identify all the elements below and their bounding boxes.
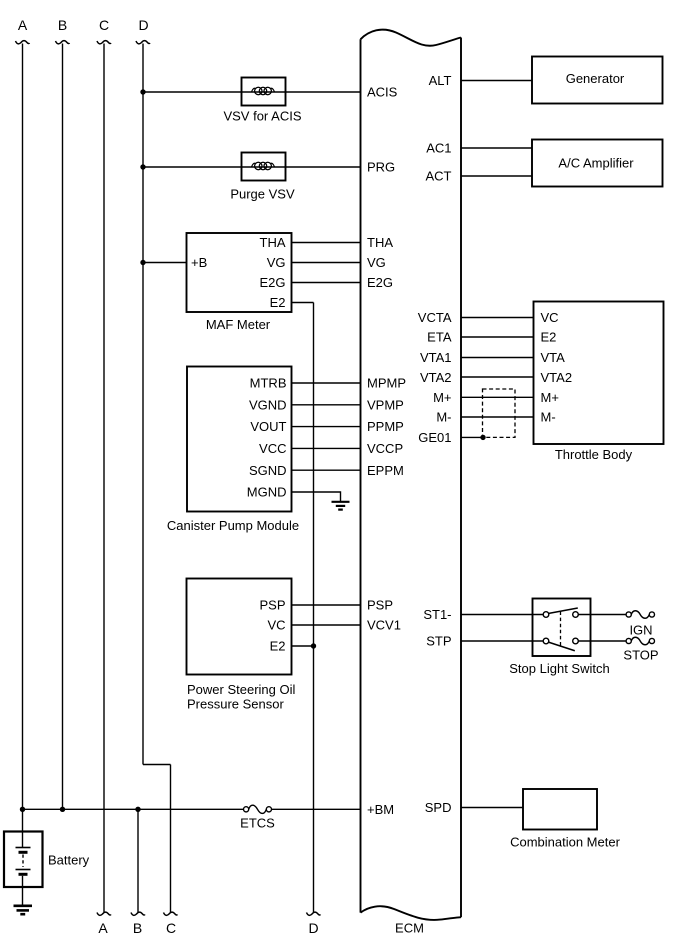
wire switch to IGN connector: [591, 614, 627, 616]
svg-text:+B: +B: [191, 255, 207, 270]
connector A bottom symbol: [97, 912, 111, 915]
battery cell 1 long plate: [16, 847, 31, 849]
svg-text:B: B: [58, 17, 67, 33]
wire MAF E2G to ECM: [292, 282, 361, 284]
wire STP to Stop Light Switch: [461, 640, 533, 642]
junction dot D/+B: [140, 260, 145, 265]
wire MAF E2 to ground bus: [292, 302, 314, 304]
svg-text:VSV for ACIS: VSV for ACIS: [223, 109, 301, 124]
switch upper left contact: [543, 612, 549, 618]
switch dashed link: [560, 612, 562, 647]
IGN connector right circle: [649, 612, 654, 617]
fuse ETCS right terminal: [266, 807, 271, 812]
svg-text:VCCP: VCCP: [367, 441, 403, 456]
svg-text:ACT: ACT: [426, 169, 452, 184]
svg-text:SPD: SPD: [425, 800, 452, 815]
wire D vertical upper segment: [142, 44, 144, 765]
wire switch to STOP connector: [591, 640, 627, 642]
svg-text:E2G: E2G: [367, 275, 393, 290]
switch lower pole wires: [533, 640, 591, 642]
junction dot +BM at bottom-B stub: [135, 807, 140, 812]
junction dot D/PRG: [140, 164, 145, 169]
battery cell 2 long plate: [16, 869, 31, 871]
svg-text:VGND: VGND: [249, 397, 287, 412]
battery cell 1 short plate: [19, 851, 28, 854]
svg-text:E2: E2: [270, 295, 286, 310]
IGN connector wave: [631, 611, 649, 619]
ground symbol for MGND: [332, 502, 350, 510]
svg-text:PSP: PSP: [367, 598, 393, 613]
svg-text:PPMP: PPMP: [367, 419, 404, 434]
Canister Pump Module box: [187, 367, 292, 512]
wire M+ to Throttle Body: [461, 396, 534, 398]
svg-text:ST1-: ST1-: [423, 607, 451, 622]
wire D jog horizontal: [143, 764, 171, 766]
svg-text:Generator: Generator: [566, 71, 625, 86]
VSV for ACIS coil: [252, 87, 275, 94]
svg-text:D: D: [138, 17, 148, 33]
connector C top symbol: [97, 41, 111, 44]
svg-text:PSP: PSP: [259, 598, 285, 613]
wire MAF +B from D line: [143, 262, 187, 264]
wire ST1- to Stop Light Switch: [461, 614, 533, 616]
connector D bottom symbol: [307, 912, 321, 915]
connector C bottom symbol: [164, 912, 178, 915]
svg-text:M+: M+: [433, 390, 451, 405]
junction dot PS E2 on ground bus: [311, 643, 316, 648]
Generator box: [532, 57, 663, 104]
wire VOUT to ECM PPMP: [292, 426, 361, 428]
wire ALT to Generator: [461, 80, 532, 82]
wire MGND to ground: [292, 492, 341, 501]
svg-text:A: A: [18, 17, 28, 33]
svg-text:VG: VG: [367, 255, 386, 270]
svg-text:MAF Meter: MAF Meter: [206, 317, 271, 332]
battery bottom lead to ground: [22, 876, 24, 905]
wire +BM main horizontal left part: [23, 808, 244, 810]
svg-text:M-: M-: [541, 410, 556, 425]
junction dot D/ACIS: [140, 89, 145, 94]
connector B top symbol: [56, 41, 70, 44]
svg-text:A/C Amplifier: A/C Amplifier: [558, 156, 634, 171]
switch upper blade: [549, 608, 578, 613]
wire A vertical (battery feed): [22, 44, 24, 832]
STOP connector wave: [631, 637, 649, 645]
connector A top symbol: [16, 41, 30, 44]
wire +BM main horizontal right part: [271, 808, 360, 810]
svg-text:Throttle Body: Throttle Body: [555, 447, 633, 462]
wire GE01 to shield: [461, 436, 483, 438]
switch lower left contact: [543, 638, 549, 644]
wire D lower segment to bottom connector C: [170, 765, 172, 913]
Power Steering Oil Pressure Sensor box: [187, 579, 292, 675]
junction dot GE01 shield: [480, 435, 485, 440]
svg-text:C: C: [99, 17, 109, 33]
A/C Amplifier box: [532, 140, 663, 187]
svg-text:VCC: VCC: [259, 441, 286, 456]
wire PS E2 to ground bus: [292, 645, 314, 647]
svg-text:THA: THA: [260, 235, 286, 250]
wire VGND to ECM VPMP: [292, 404, 361, 406]
Stop Light Switch box: [533, 599, 591, 657]
wire ETA to Throttle Body E2: [461, 336, 534, 338]
svg-text:IGN: IGN: [629, 623, 652, 638]
svg-text:VOUT: VOUT: [250, 419, 286, 434]
LEFTDONE: [361, 30, 462, 920]
ECM body right edge: [460, 38, 462, 918]
svg-text:Purge VSV: Purge VSV: [230, 187, 295, 202]
ECM body top torn edge: [361, 30, 462, 46]
svg-text:ETA: ETA: [427, 330, 452, 345]
junction dot +BM at A line: [20, 807, 25, 812]
svg-text:VPMP: VPMP: [367, 397, 404, 412]
svg-text:STP: STP: [426, 634, 451, 649]
connector D top symbol: [136, 41, 150, 44]
svg-text:SGND: SGND: [249, 463, 287, 478]
connector B bottom symbol: [131, 912, 145, 915]
ECM body bottom torn edge: [361, 906, 462, 920]
svg-text:GE01: GE01: [418, 430, 451, 445]
fuse ETCS left terminal: [244, 807, 249, 812]
svg-text:VTA: VTA: [541, 350, 566, 365]
battery box: [4, 832, 43, 888]
wire SPD to Combination Meter: [461, 807, 523, 809]
Purge VSV box: [242, 153, 286, 181]
wire MTRB to ECM MPMP: [292, 382, 361, 384]
wire M- to Throttle Body: [461, 416, 534, 418]
svg-text:VTA2: VTA2: [420, 370, 452, 385]
svg-text:ALT: ALT: [429, 73, 452, 88]
svg-text:Canister Pump Module: Canister Pump Module: [167, 518, 299, 533]
wire PRG row (D line to ECM): [143, 166, 361, 168]
svg-text:STOP: STOP: [623, 648, 658, 663]
wire VTA2 to Throttle Body VTA2: [461, 376, 534, 378]
svg-text:B: B: [133, 920, 142, 936]
wire ACIS row (D line to ECM): [143, 91, 361, 93]
Combination Meter box: [523, 789, 597, 830]
svg-text:Stop Light Switch: Stop Light Switch: [509, 661, 609, 676]
wire AC1 to A/C Amplifier: [461, 147, 532, 149]
svg-text:VG: VG: [267, 255, 286, 270]
wire PSP to ECM: [292, 604, 361, 606]
svg-text:VCV1: VCV1: [367, 618, 401, 633]
wire VTA1 to Throttle Body VTA: [461, 357, 534, 359]
svg-text:ECM: ECM: [395, 921, 424, 936]
battery top lead: [22, 832, 24, 848]
wire ACT to A/C Amplifier: [461, 175, 532, 177]
switch lower right contact: [573, 638, 579, 644]
svg-text:M-: M-: [436, 410, 451, 425]
wire VCTA to Throttle Body VC: [461, 317, 534, 319]
wire E2 ground bus vertical to bottom connector D: [313, 303, 315, 913]
ECM body left edge: [360, 39, 362, 912]
svg-text:M+: M+: [541, 390, 559, 405]
svg-text:ETCS: ETCS: [240, 816, 275, 831]
STOP connector left circle: [626, 638, 631, 643]
ground symbol below battery: [14, 906, 33, 914]
Throttle Body box: [534, 302, 664, 445]
svg-text:C: C: [166, 920, 176, 936]
switch upper pole wires: [533, 614, 591, 616]
svg-text:MTRB: MTRB: [250, 376, 287, 391]
IGN connector left circle: [626, 612, 631, 617]
wire bottom B stub: [137, 809, 139, 912]
wire MAF VG to ECM: [292, 262, 361, 264]
svg-text:MPMP: MPMP: [367, 376, 406, 391]
battery dashed middle link: [22, 855, 24, 868]
svg-text:E2: E2: [541, 330, 557, 345]
svg-text:D: D: [308, 920, 318, 936]
svg-text:A: A: [98, 920, 108, 936]
svg-text:Pressure Sensor: Pressure Sensor: [187, 697, 284, 712]
VSV for ACIS box: [242, 78, 286, 106]
switch lower blade: [549, 642, 575, 650]
svg-text:+BM: +BM: [367, 802, 394, 817]
switch upper right contact: [573, 612, 579, 618]
svg-text:MGND: MGND: [247, 485, 287, 500]
battery cell 2 short plate: [19, 873, 28, 876]
STOP connector right circle: [649, 638, 654, 643]
wire VC to ECM VCV1: [292, 624, 361, 626]
svg-text:E2: E2: [270, 639, 286, 654]
junction dot +BM at B line: [60, 807, 65, 812]
shield dashed box: [483, 389, 516, 437]
wire C vertical to bottom connector A: [103, 44, 105, 913]
wire VCC to ECM VCCP: [292, 447, 361, 449]
wire SGND to ECM EPPM: [292, 469, 361, 471]
svg-text:THA: THA: [367, 235, 393, 250]
MAF Meter box: [187, 233, 292, 312]
svg-text:Power Steering Oil: Power Steering Oil: [187, 682, 295, 697]
wire B vertical: [62, 44, 64, 810]
svg-text:VTA2: VTA2: [541, 370, 573, 385]
svg-text:Battery: Battery: [48, 853, 90, 868]
Purge VSV coil: [252, 162, 275, 169]
svg-text:VC: VC: [541, 310, 559, 325]
svg-text:VC: VC: [267, 618, 285, 633]
fuse ETCS element: [249, 805, 267, 813]
svg-text:ACIS: ACIS: [367, 85, 398, 100]
svg-text:Combination Meter: Combination Meter: [510, 834, 620, 849]
svg-text:EPPM: EPPM: [367, 463, 404, 478]
svg-text:AC1: AC1: [426, 141, 451, 156]
svg-text:E2G: E2G: [259, 275, 285, 290]
svg-text:PRG: PRG: [367, 160, 395, 175]
wire MAF THA to ECM: [292, 242, 361, 244]
svg-text:VCTA: VCTA: [418, 310, 452, 325]
svg-text:VTA1: VTA1: [420, 350, 452, 365]
